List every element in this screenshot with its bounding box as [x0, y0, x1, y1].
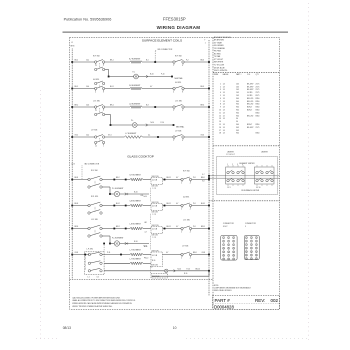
pot connector box G4: [151, 252, 163, 267]
svg-text:13: 13: [246, 251, 248, 253]
svg-text:4-7: 4-7: [166, 252, 168, 254]
svg-text:BKL-RD: BKL-RD: [247, 98, 254, 100]
svg-text:VERIFY PROPER OPERATION AFTER: VERIFY PROPER OPERATION AFTER SERVICING.: [72, 305, 113, 308]
surface switch SW2 pole: [173, 61, 175, 63]
svg-text:4: 4: [182, 140, 183, 142]
svg-text:BK-2: BK-2: [75, 59, 79, 61]
svg-text:105: 105: [236, 89, 239, 91]
svg-text:COL: COL: [247, 74, 250, 76]
wire row6 right: [143, 136, 174, 138]
svg-text:BDN-T: BDN-T: [247, 124, 252, 126]
svg-text:4: 4: [190, 232, 191, 234]
svg-text:905: 905: [236, 127, 239, 129]
svg-text:8: 8: [103, 92, 104, 94]
svg-text:8350: 8350: [256, 98, 260, 100]
wire G1 left: [72, 179, 88, 181]
svg-text:4: 4: [190, 258, 191, 260]
surface switch SW6 pole: [173, 106, 175, 108]
svg-text:1 K 3: 1 K 3: [227, 187, 231, 189]
svg-text:2: 2: [220, 86, 221, 88]
svg-text:L-8 ELEMENT: L-8 ELEMENT: [130, 224, 142, 226]
svg-text:CAUTION-DISCONNECT POWER BEFOR: CAUTION-DISCONNECT POWER BEFORE SERVICIN…: [72, 296, 120, 299]
svg-text:21: 21: [256, 258, 258, 260]
svg-text:1: 1: [205, 42, 206, 44]
svg-text:10: 10: [246, 248, 248, 250]
svg-text:GY-RD: GY-RD: [247, 95, 253, 97]
svg-text:P-L ELEMENT: P-L ELEMENT: [112, 237, 124, 239]
svg-text:900: 900: [236, 98, 239, 100]
svg-text:GY-RD: GY-RD: [247, 92, 253, 94]
svg-text:GY-3: GY-3: [201, 134, 205, 136]
neutral return wire GL3: [208, 271, 210, 276]
svg-text:18: 18: [233, 255, 235, 257]
svg-text:N-10: N-10: [151, 122, 155, 124]
svg-text:4-7: 4-7: [176, 226, 178, 228]
svg-text:PART #: PART #: [215, 298, 231, 303]
svg-text:BR-2: BR-2: [75, 104, 79, 106]
svg-text:N-10: N-10: [144, 196, 147, 198]
svg-text:BR-3: BR-3: [201, 104, 205, 106]
svg-text:LIMITER: LIMITER: [261, 152, 268, 154]
arrow row2: [146, 75, 148, 77]
legend divider: [213, 72, 280, 74]
glass right switch G3: [181, 227, 183, 229]
svg-text:14: 14: [223, 107, 225, 109]
limiter switch box B: [254, 167, 274, 184]
svg-text:14: 14: [223, 83, 225, 85]
svg-text:2175: 2175: [256, 83, 260, 85]
svg-text:RD RED: RD RED: [214, 53, 222, 55]
wire G4 mid: [102, 254, 130, 256]
wire G3 to bus: [191, 228, 209, 230]
svg-text:14: 14: [219, 121, 221, 123]
svg-text:R.F. SW.: R.F. SW.: [183, 170, 190, 172]
svg-text:NOTE:: NOTE:: [214, 285, 219, 287]
svg-text:WIRE: WIRE: [214, 74, 218, 76]
svg-text:BK-3: BK-3: [201, 59, 205, 61]
connector 8-10 body: [221, 235, 237, 260]
svg-text:2: 2: [181, 232, 182, 234]
svg-text:L.F. SW.: L.F. SW.: [182, 245, 189, 247]
svg-text:CONNECTOR: CONNECTOR: [223, 223, 235, 225]
svg-text:N-10: N-10: [144, 245, 147, 247]
svg-text:P-10: P-10: [161, 122, 164, 124]
wire row1 mid: [105, 61, 131, 63]
wire lamp feed GL1: [102, 186, 110, 188]
svg-text:P-8: P-8: [193, 203, 196, 205]
junction left bus G2: [71, 205, 73, 207]
svg-text:N-10: N-10: [178, 268, 182, 270]
limiter switch box A: [226, 167, 245, 184]
glass switch LF feed to lamp row: [103, 244, 105, 252]
svg-text:4: 4: [190, 183, 191, 185]
svg-text:2175: 2175: [256, 86, 260, 88]
svg-text:4-7 LIM: 4-7 LIM: [152, 180, 158, 182]
outer diagram border: [70, 38, 280, 310]
svg-text:4-7: 4-7: [176, 177, 178, 179]
svg-text:1: 1: [227, 164, 228, 166]
svg-text:GN/YL GRN/YEL: GN/YL GRN/YEL: [214, 70, 228, 72]
page edge dotted line right: [308, 3, 310, 341]
svg-text:N-10: N-10: [152, 260, 155, 262]
svg-text:BK BLACK BU BLUE: BK BLACK BU BLUE: [214, 36, 232, 39]
svg-text:GY-1: GY-1: [108, 134, 112, 136]
arrow GL1: [125, 193, 127, 195]
wire GL2 lamp left: [110, 243, 114, 245]
surface switch SW3 linkage: [99, 85, 101, 87]
connector 8-10 pins: [223, 237, 235, 261]
junction a G1: [113, 179, 115, 181]
wire lamp feed GL2: [102, 235, 110, 237]
svg-text:12: 12: [256, 248, 258, 250]
svg-text:GY GRAY: GY GRAY: [214, 41, 223, 44]
svg-text:BK-8: BK-8: [193, 252, 197, 254]
junction left bus row3: [71, 88, 73, 90]
svg-text:LIM CON: LIM CON: [152, 186, 158, 188]
svg-text:905: 905: [236, 130, 239, 132]
svg-text:N-10: N-10: [150, 74, 154, 76]
svg-text:L1: L1: [95, 65, 97, 67]
svg-text:L1: L1: [95, 110, 97, 112]
svg-text:17: 17: [251, 255, 253, 257]
svg-text:L-7 ELEMENT: L-7 ELEMENT: [130, 259, 142, 261]
svg-text:16: 16: [219, 127, 221, 129]
svg-text:L.F. SW.: L.F. SW.: [87, 249, 94, 251]
resistor element R4: [124, 136, 142, 139]
junction right bus GL3: [208, 270, 210, 272]
svg-text:1 2 3 4 5 6 7: 1 2 3 4 5 6 7: [226, 154, 235, 156]
svg-text:SUR CON: SUR CON: [152, 176, 159, 178]
svg-text:P-2: P-2: [186, 59, 189, 61]
svg-text:CONNECTOR: CONNECTOR: [245, 223, 257, 225]
table bottom divider: [213, 145, 280, 147]
svg-text:8 10 P: 8 10 P: [223, 226, 228, 228]
junction right bus row4: [208, 106, 210, 108]
junction a G2: [113, 205, 115, 207]
surface switch SW1 pole2: [95, 68, 97, 70]
svg-text:14: 14: [223, 92, 225, 94]
glass switch G3 linkage: [94, 230, 96, 235]
svg-text:4-7: 4-7: [150, 86, 152, 88]
svg-text:8175: 8175: [256, 95, 260, 97]
svg-text:BR-1: BR-1: [110, 104, 114, 106]
svg-text:BU-2: BU-2: [116, 203, 120, 205]
svg-text:P-L: P-L: [133, 71, 136, 73]
svg-text:BU-2: BU-2: [75, 86, 79, 88]
svg-text:L1 B: L1 B: [71, 163, 74, 165]
wire pole2 to lamp row5: [105, 114, 111, 116]
resistor element G4b: [130, 262, 143, 265]
wire G4 to bus: [191, 254, 209, 256]
wire pole2 to lamp row2: [105, 69, 109, 71]
limiter link wire G3-G4: [149, 236, 151, 250]
glass switch G1 pole1: [88, 178, 90, 180]
svg-text:WH WHITE: WH WHITE: [214, 62, 224, 64]
resistor element G2: [130, 204, 143, 207]
wire G4 left: [72, 254, 89, 256]
svg-text:4-7: 4-7: [145, 232, 147, 234]
glass switch LF linkage: [84, 256, 86, 271]
wire G1 from pot box: [163, 179, 182, 181]
page edge dotted line bottom: [186, 338, 309, 340]
svg-text:14: 14: [223, 86, 225, 88]
page edge dotted line left: [40, 90, 42, 341]
wire row1 to bus: [184, 61, 209, 63]
wire row2 lamp left: [109, 76, 134, 78]
svg-text:L.F. SW.: L.F. SW.: [175, 130, 182, 132]
surface switch SW5 pole2: [95, 113, 97, 115]
svg-text:2: 2: [181, 183, 182, 185]
svg-text:6: 6: [220, 98, 221, 100]
junction left bus row4: [71, 106, 73, 108]
limiter section divider: [209, 200, 280, 202]
svg-text:BK-11: BK-11: [167, 177, 171, 179]
svg-text:VT VIOLET: VT VIOLET: [214, 59, 224, 61]
svg-text:105: 105: [236, 92, 239, 94]
svg-text:4: 4: [95, 92, 96, 94]
glass switch G2 pole1: [88, 204, 90, 206]
svg-text:2175: 2175: [256, 127, 260, 129]
wire G4 row7: [104, 262, 130, 264]
wire G2 left: [72, 205, 88, 207]
svg-text:L.R. SW.: L.R. SW.: [93, 100, 100, 102]
svg-text:18: 18: [256, 255, 258, 257]
resistor element G1: [130, 178, 143, 181]
svg-text:NEUTRAL: NEUTRAL: [175, 77, 183, 80]
arrow GL2: [125, 242, 127, 244]
arrow bar GL2: [127, 242, 129, 244]
schematic bottom boundary: [70, 278, 214, 280]
svg-text:12: 12: [223, 115, 225, 117]
svg-text:SUR CON: SUR CON: [152, 250, 159, 252]
indicator lamp PL2: [132, 123, 137, 128]
wire G3 into pot box: [143, 228, 151, 230]
junction right bus row1: [208, 61, 210, 63]
wire row5 lamp left: [111, 124, 133, 126]
svg-text:P-11: P-11: [107, 252, 110, 254]
left supply bus L1: [71, 49, 73, 280]
junction b G2: [125, 205, 127, 207]
svg-text:N-3: N-3: [146, 104, 149, 106]
svg-text:900: 900: [236, 110, 239, 112]
svg-text:8350: 8350: [256, 124, 260, 126]
junction right bus G3: [208, 228, 210, 230]
wire color legend: [214, 36, 232, 72]
header rule: [63, 31, 289, 33]
svg-text:8350: 8350: [256, 115, 260, 117]
svg-text:2175: 2175: [256, 92, 260, 94]
svg-text:14: 14: [223, 130, 225, 132]
svg-text:19: 19: [246, 258, 248, 260]
wire row2 lamp right: [138, 76, 172, 78]
svg-text:7: 7: [220, 101, 221, 103]
limiter box B contacts: [256, 165, 273, 189]
svg-text:BK-10: BK-10: [196, 268, 201, 270]
right column left edge: [212, 38, 214, 310]
junction b G3: [125, 228, 127, 230]
svg-text:IND CONNECTOR: IND CONNECTOR: [158, 49, 173, 51]
wire G1 to bus: [191, 179, 209, 181]
svg-text:5-8 ELEMENT: 5-8 ELEMENT: [129, 85, 141, 87]
svg-text:2: 2: [173, 140, 174, 142]
resistor element G3: [130, 227, 143, 230]
svg-text:2: 2: [181, 209, 182, 211]
svg-text:REV:: REV:: [255, 298, 265, 303]
svg-text:11: 11: [228, 248, 230, 250]
svg-text:L.R. SW.: L.R. SW.: [175, 100, 182, 102]
svg-text:BDN-T: BDN-T: [247, 110, 252, 112]
svg-text:BU-8: BU-8: [75, 203, 79, 205]
junction row6 mid: [157, 136, 159, 138]
wire GL2 lamp right: [120, 243, 149, 245]
svg-text:R.F. SW.: R.F. SW.: [91, 170, 98, 172]
surface switch SW7 pole1: [95, 136, 97, 138]
wire G4 into box b: [143, 262, 151, 264]
svg-text:GY-8: GY-8: [202, 252, 206, 254]
resistor element R3: [130, 106, 142, 109]
svg-text:2: 2: [181, 258, 182, 260]
resistor element R1: [130, 61, 142, 64]
glass switch G3 pole2: [88, 235, 90, 237]
junction left bus G4: [71, 254, 73, 256]
svg-text:BR BROWN: BR BROWN: [214, 40, 225, 42]
svg-text:15: 15: [256, 251, 258, 253]
wire row4 to bus: [184, 106, 209, 108]
indicator lamp GL1: [114, 191, 119, 196]
junction right bus G4: [208, 254, 210, 256]
svg-text:8: 8: [182, 92, 183, 94]
svg-text:14: 14: [223, 118, 225, 120]
svg-text:LIM CON: LIM CON: [152, 265, 158, 267]
svg-text:LABEL ALL WIRES PRIOR TO DISCO: LABEL ALL WIRES PRIOR TO DISCONNECTION W…: [72, 299, 136, 302]
svg-text:900: 900: [236, 107, 239, 109]
indicator lamp GL3: [165, 269, 168, 272]
glass switch G1 pole2: [88, 186, 90, 188]
wire G2 mid: [102, 205, 130, 207]
svg-text:SUR CON: SUR CON: [152, 225, 159, 227]
svg-text:900: 900: [236, 115, 239, 117]
svg-text:N-10: N-10: [134, 191, 138, 193]
svg-text:TN TAN: TN TAN: [214, 55, 221, 58]
svg-text:8350: 8350: [256, 104, 260, 106]
svg-text:DB DK BLUE: DB DK BLUE: [214, 67, 225, 69]
svg-text:L2: L2: [95, 146, 97, 148]
svg-text:15: 15: [219, 124, 221, 126]
junction left bus G1: [71, 179, 73, 181]
junction G4a: [120, 254, 122, 256]
svg-text:5-8 ELEMENT: 5-8 ELEMENT: [130, 201, 142, 203]
svg-text:16: 16: [246, 255, 248, 257]
svg-text:BK-8: BK-8: [75, 177, 79, 179]
svg-text:BR-2: BR-2: [116, 226, 120, 228]
svg-text:IND CONNECTOR: IND CONNECTOR: [84, 163, 99, 165]
wire row4 left: [72, 106, 95, 108]
junction right bus row6: [208, 136, 210, 138]
limiter box A contacts: [227, 164, 244, 189]
junction lamp feed row2: [108, 76, 110, 78]
svg-text:9-7: 9-7: [202, 174, 204, 176]
part number box divider: [213, 302, 280, 304]
svg-text:13: 13: [223, 252, 225, 254]
svg-text:GN GREEN: GN GREEN: [214, 45, 224, 47]
wire G4 into box a: [143, 254, 151, 256]
surface switch SW1 linkage: [99, 63, 101, 68]
neutral connector box GL3: [151, 274, 168, 278]
svg-text:14: 14: [223, 89, 225, 91]
pot connector box G2: [151, 204, 163, 211]
svg-text:GLASS COOKTOP: GLASS COOKTOP: [127, 155, 154, 159]
svg-text:10: 10: [219, 110, 221, 112]
svg-text:BR-8: BR-8: [201, 226, 205, 228]
svg-text:14: 14: [223, 98, 225, 100]
svg-text:2175: 2175: [256, 89, 260, 91]
svg-text:21: 21: [233, 259, 235, 261]
element limiter dashed box: [217, 157, 278, 195]
junction row4 mid: [154, 106, 156, 108]
svg-text:L1: L1: [71, 42, 73, 44]
wire row5 lamp right: [137, 124, 174, 126]
svg-text:4-7: 4-7: [176, 203, 178, 205]
svg-text:90: 90: [236, 121, 238, 123]
svg-text:BK-2: BK-2: [116, 177, 120, 179]
svg-text:BR B: BR B: [71, 46, 75, 48]
svg-text:8350: 8350: [256, 112, 260, 114]
junction right bus row3: [208, 88, 210, 90]
svg-text:SURFACE ELEMENT COILS: SURFACE ELEMENT COILS: [142, 39, 182, 43]
svg-text:1 2 3: 1 2 3: [153, 237, 157, 239]
junction c G3: [164, 228, 166, 230]
svg-text:R.F. SW.: R.F. SW.: [175, 56, 182, 58]
glass switch G2 linkage: [94, 207, 96, 212]
svg-text:4: 4: [242, 164, 243, 166]
svg-text:5: 5: [220, 95, 221, 97]
svg-text:14: 14: [251, 251, 253, 253]
svg-text:P-8: P-8: [193, 226, 196, 228]
glass right switch G4: [181, 253, 183, 255]
junction left bus row6: [71, 136, 73, 138]
svg-text:4: 4: [190, 209, 191, 211]
resistor element R2: [130, 87, 142, 90]
svg-text:10-2: 10-2: [86, 134, 89, 136]
svg-text:BU-8: BU-8: [201, 203, 205, 205]
svg-text:4-8 SW.: 4-8 SW.: [175, 82, 182, 84]
glass switch G1 linkage: [94, 181, 96, 186]
svg-text:BKL-RD: BKL-RD: [247, 115, 254, 117]
wire G2 into pot box: [143, 205, 151, 207]
svg-text:BKL-RD: BKL-RD: [247, 104, 254, 106]
svg-text:900: 900: [236, 112, 239, 114]
svg-text:14: 14: [223, 95, 225, 97]
junction lamp feed GL1: [109, 193, 111, 195]
wire G1 mid: [102, 179, 130, 181]
svg-text:90: 90: [236, 118, 238, 120]
svg-text:WIRING ERRORS CAN CAUSE IMPROP: WIRING ERRORS CAN CAUSE IMPROPER AND DAN…: [72, 302, 132, 305]
svg-text:Publication No. 5995636906: Publication No. 5995636906: [64, 17, 112, 21]
svg-text:4: 4: [182, 110, 183, 112]
wire row3 left: [72, 88, 95, 90]
junction right bus G2: [208, 205, 210, 207]
svg-text:4: 4: [182, 65, 183, 67]
svg-text:BR-8: BR-8: [75, 226, 79, 228]
svg-text:R.F. SW.: R.F. SW.: [93, 56, 100, 58]
svg-text:L.F. SW.: L.F. SW.: [91, 129, 98, 131]
wire row4 mid: [105, 106, 131, 108]
svg-text:14: 14: [223, 104, 225, 106]
svg-text:BK-1: BK-1: [110, 59, 114, 61]
glass switch LF pole1: [88, 253, 90, 255]
junction left bus row1: [71, 61, 73, 63]
limiter link wire G2-G3: [149, 214, 151, 225]
